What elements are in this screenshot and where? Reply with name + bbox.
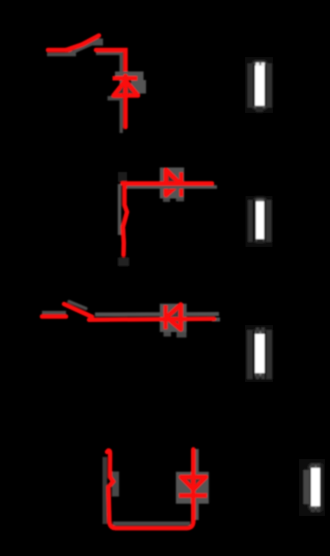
diode D2: [160, 168, 184, 202]
wire: [105, 449, 197, 528]
junction: [118, 172, 127, 182]
wire: [191, 450, 196, 523]
fuse F3: [245, 325, 273, 382]
diode D1: [108, 72, 147, 101]
wire: [96, 50, 126, 133]
wire: [89, 319, 214, 320]
wire: [95, 314, 220, 320]
switch S1: [66, 36, 103, 55]
wire: [42, 313, 66, 317]
diode D4: [176, 472, 209, 504]
diode D3: [160, 304, 187, 338]
wire: [118, 184, 129, 266]
wire: [123, 76, 128, 127]
wire: [123, 184, 218, 188]
fuse F4: [299, 459, 325, 516]
wire: [47, 50, 76, 55]
switch S2: [64, 302, 92, 317]
fuse F1: [245, 57, 273, 113]
fuse F2: [246, 196, 273, 247]
